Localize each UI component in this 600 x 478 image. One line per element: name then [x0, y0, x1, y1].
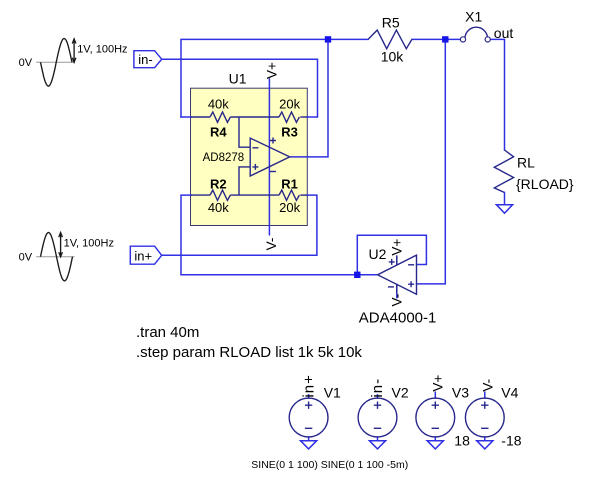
svg-text:RL: RL — [517, 155, 535, 171]
svg-text:in+: in+ — [301, 374, 318, 397]
svg-text:{RLOAD}: {RLOAD} — [516, 176, 574, 192]
svg-text:ADA4000-1: ADA4000-1 — [359, 310, 437, 327]
svg-text:SINE(0 1 100): SINE(0 1 100) — [251, 459, 318, 471]
svg-text:in+: in+ — [134, 248, 152, 263]
svg-text:out: out — [494, 25, 514, 41]
svg-text:10k: 10k — [381, 49, 405, 65]
svg-text:V1: V1 — [324, 384, 341, 400]
svg-text:18: 18 — [454, 433, 470, 449]
svg-text:40k: 40k — [208, 97, 229, 112]
svg-text:0V: 0V — [19, 57, 33, 69]
svg-text:R3: R3 — [281, 125, 298, 140]
svg-text:R2: R2 — [210, 177, 227, 192]
svg-text:in-: in- — [369, 378, 386, 398]
svg-text:V-: V- — [264, 238, 279, 251]
svg-text:20k: 20k — [279, 200, 300, 215]
svg-text:V-: V- — [390, 294, 405, 307]
svg-text:R4: R4 — [210, 125, 227, 140]
svg-text:V3: V3 — [452, 384, 469, 400]
svg-text:X1: X1 — [465, 9, 482, 25]
svg-text:AD8278: AD8278 — [203, 152, 245, 164]
svg-text:.step param RLOAD list 1k 5k 1: .step param RLOAD list 1k 5k 10k — [136, 344, 362, 361]
svg-text:R5: R5 — [382, 15, 400, 31]
svg-text:0V: 0V — [19, 252, 33, 264]
svg-text:20k: 20k — [279, 97, 300, 112]
svg-text:1V, 100Hz: 1V, 100Hz — [64, 238, 114, 250]
svg-text:U2: U2 — [369, 246, 387, 262]
svg-text:.tran 40m: .tran 40m — [136, 324, 199, 341]
svg-text:1V, 100Hz: 1V, 100Hz — [77, 44, 127, 56]
svg-text:V4: V4 — [501, 384, 518, 400]
svg-text:U1: U1 — [229, 71, 247, 87]
svg-text:in-: in- — [138, 52, 152, 67]
svg-text:40k: 40k — [208, 200, 229, 215]
svg-text:V+: V+ — [264, 62, 279, 79]
svg-text:V2: V2 — [392, 384, 409, 400]
svg-text:V+: V+ — [431, 375, 446, 392]
svg-text:SINE(0 1 100 -5m): SINE(0 1 100 -5m) — [321, 459, 409, 471]
svg-text:V+: V+ — [389, 239, 404, 256]
svg-text:R1: R1 — [281, 177, 298, 192]
svg-text:-18: -18 — [501, 433, 521, 449]
svg-text:V-: V- — [480, 379, 495, 392]
